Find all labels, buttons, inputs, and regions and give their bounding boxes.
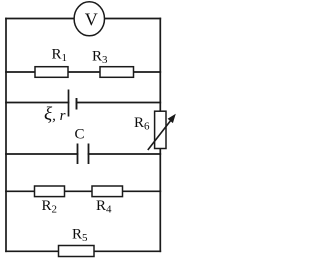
svg-text:R1: R1 [52,47,68,65]
wire top right segment [103,18,160,20]
resistor R4 [92,186,123,216]
wire row R1 R3 [6,71,160,73]
wire battery row left [6,102,69,104]
wire top left segment [6,18,76,20]
battery long plate [68,90,70,117]
wire capacitor row right [89,153,161,155]
wire capacitor row left [6,153,78,155]
rheostat arrow [148,121,171,150]
svg-text:R5: R5 [72,227,88,245]
wire bottom row [6,250,160,252]
svg-text:ξ, r: ξ, r [44,104,66,125]
resistor R2 [35,186,65,216]
svg-text:R3: R3 [92,49,108,67]
resistor R1 [35,47,68,78]
svg-text:R6: R6 [134,115,150,133]
wire battery row right [77,102,161,104]
wire left vertical [5,19,7,252]
capacitor C [78,144,89,165]
capacitor plate right [88,144,90,165]
wire row R2 R4 [6,190,160,192]
svg-text:V: V [85,10,98,30]
svg-text:R4: R4 [96,198,112,216]
resistor R3 [92,49,134,78]
capacitor plate left [77,144,79,165]
svg-text:R2: R2 [42,198,58,216]
rheostat R6 [134,111,176,150]
battery cell [69,90,77,117]
wire right vertical [159,19,161,252]
svg-text:C: C [75,127,85,143]
voltmeter V [74,2,104,36]
resistor R5 [59,227,95,257]
battery short plate [76,98,78,110]
